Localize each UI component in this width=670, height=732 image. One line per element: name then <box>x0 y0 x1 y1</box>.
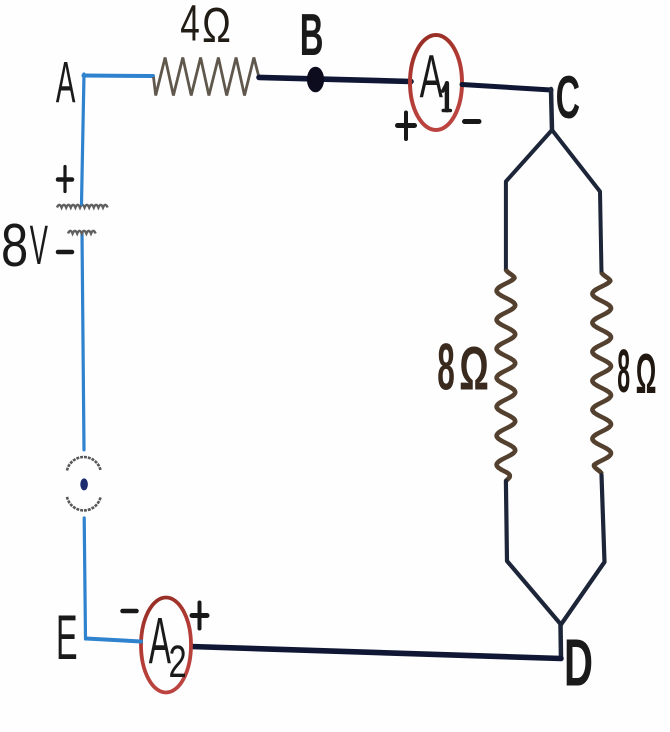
battery minus sign <box>58 250 72 255</box>
svg-text:E: E <box>56 601 78 673</box>
svg-text:A: A <box>56 49 76 115</box>
wire right branch upper (C split to right resistor) <box>552 130 602 273</box>
label 8 ohm right <box>617 336 630 405</box>
A1 plus sign <box>398 113 415 140</box>
A2 plus sign <box>192 603 207 629</box>
svg-text:Ω: Ω <box>202 0 231 53</box>
wire resistor to A1 through node B <box>259 77 411 81</box>
wire left branch lower (left resistor to D) <box>506 481 561 624</box>
battery plus sign <box>58 167 72 192</box>
node E label <box>56 601 78 673</box>
plug key circle (bottom arc) <box>67 497 101 511</box>
resistor R3 8-ohm (right) <box>592 272 611 474</box>
A1 minus sign <box>465 119 480 124</box>
battery bottom plate (short squiggle) <box>68 231 96 234</box>
node B label <box>300 2 324 69</box>
svg-text:Ω: Ω <box>459 334 489 403</box>
wire A to 4-ohm resistor (top-left horizontal) <box>84 74 154 79</box>
wire D to A2 (bottom horizontal) <box>191 647 561 659</box>
svg-text:Ω: Ω <box>636 343 657 406</box>
ammeter A2 circle <box>141 598 191 693</box>
svg-text:8: 8 <box>1 211 28 279</box>
node A <box>56 49 76 115</box>
svg-text:B: B <box>300 2 324 69</box>
ammeter A1 label <box>420 42 444 111</box>
battery top plate (long squiggle) <box>57 205 108 208</box>
ammeter A1 circle <box>410 35 462 130</box>
node D label <box>564 625 593 700</box>
svg-text:8: 8 <box>617 336 630 405</box>
wire C corner down to split <box>551 89 552 130</box>
plug key circle (top arc) <box>67 457 101 471</box>
wire battery top plate up to A <box>82 74 85 204</box>
wire left branch upper (C split to left resistor) <box>506 130 552 269</box>
svg-text:A: A <box>420 42 444 111</box>
wire E up to plug <box>84 518 85 639</box>
battery voltage label 8 V <box>1 211 28 279</box>
node D junction vertical <box>558 624 563 658</box>
svg-text:A: A <box>149 606 171 679</box>
plug key dot <box>80 478 88 490</box>
svg-text:2: 2 <box>169 637 187 688</box>
svg-text:4: 4 <box>180 0 200 52</box>
svg-text:8: 8 <box>437 330 455 404</box>
A2 minus sign <box>123 609 137 614</box>
wire A1 to C <box>462 85 551 91</box>
wire A2 to E <box>86 639 141 642</box>
svg-text:V: V <box>30 214 49 276</box>
node C label <box>556 65 580 132</box>
resistor R1 4-ohm zigzag <box>154 58 260 96</box>
node B dot <box>307 67 324 93</box>
svg-text:D: D <box>564 625 593 700</box>
wire plug up to battery <box>82 233 84 450</box>
label 8 ohm left <box>437 330 455 404</box>
svg-text:C: C <box>556 65 580 132</box>
wire right branch lower (right resistor to D) <box>561 475 605 625</box>
label 4 ohm <box>180 0 200 52</box>
resistor R2 8-ohm (left) <box>497 269 516 481</box>
ammeter A2 label <box>149 606 171 679</box>
